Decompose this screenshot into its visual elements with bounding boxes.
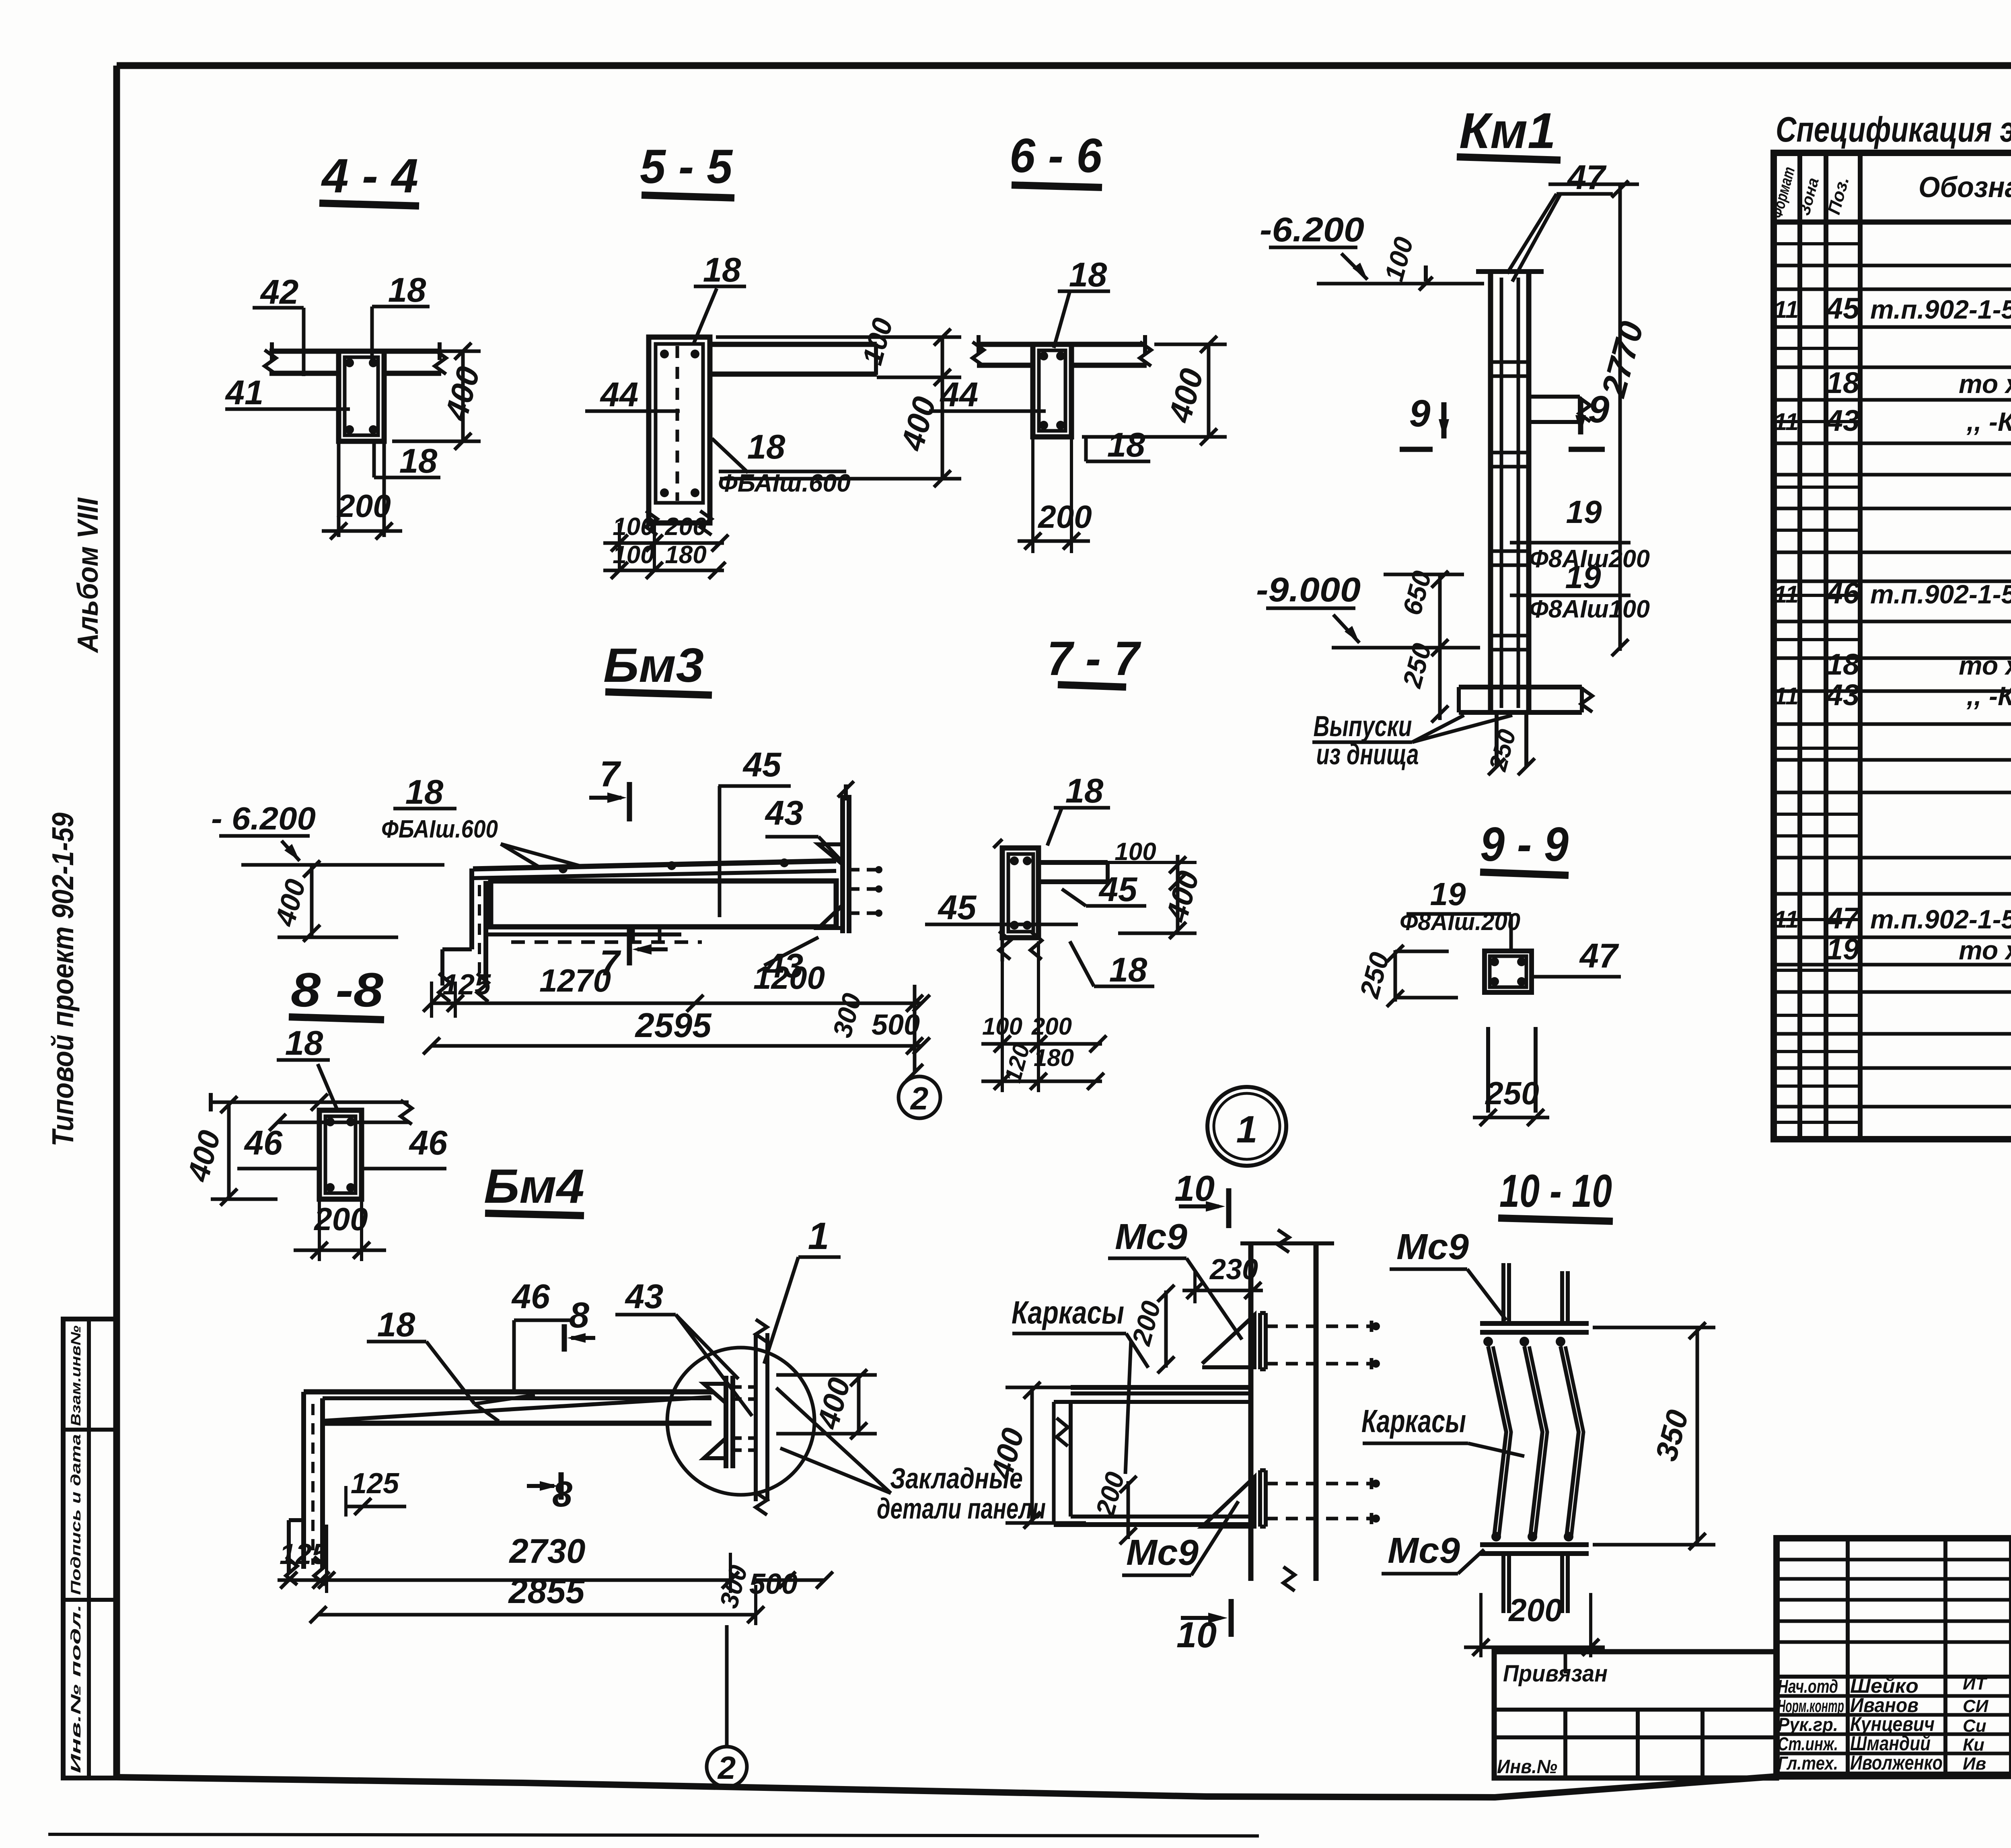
Bm3 right end plate xyxy=(818,781,854,933)
10-10 top plate xyxy=(1480,1263,1589,1346)
svg-text:8: 8 xyxy=(569,1295,589,1336)
svg-text:8 -8: 8 -8 xyxy=(291,963,383,1017)
svg-text:СИ: СИ xyxy=(1963,1696,1989,1716)
Bm3 end anchors dashed xyxy=(849,866,882,917)
svg-text:18: 18 xyxy=(399,442,438,480)
spec row 47 xyxy=(1774,901,2011,935)
inv no label xyxy=(1497,1756,1557,1778)
svg-text:18: 18 xyxy=(747,428,785,466)
spec row 18b xyxy=(1826,648,2011,681)
Bm4 dim 2855 xyxy=(310,1572,764,1623)
svg-text:46: 46 xyxy=(244,1124,283,1162)
9-9 rebar outlets below xyxy=(1473,1027,1549,1126)
Bm4 label zakladnye detali paneli xyxy=(776,1388,1046,1525)
4-4 dim 400 xyxy=(392,343,487,450)
6-6 label 18 bottom xyxy=(1086,426,1150,464)
privyazan label xyxy=(1503,1661,1608,1687)
svg-text:Ки: Ки xyxy=(1963,1735,1984,1755)
svg-text:46: 46 xyxy=(409,1124,448,1162)
svg-text:18: 18 xyxy=(377,1306,415,1344)
6-6 dim 200 xyxy=(1018,438,1092,553)
detail mark circle 1 xyxy=(1207,1087,1286,1166)
detail A lower gusset xyxy=(1202,1470,1266,1527)
Bm4 label 1 leader xyxy=(764,1215,841,1364)
7-7 slab right xyxy=(1038,862,1108,882)
Bm3 dim 400 left xyxy=(269,860,398,942)
svg-text:Нач.отд: Нач.отд xyxy=(1778,1676,1838,1697)
svg-text:Мс9: Мс9 xyxy=(1396,1227,1469,1267)
Bm3 section mark 7 lower xyxy=(600,929,668,984)
6-6 dim 400 xyxy=(1082,336,1227,445)
spec table header texts xyxy=(1768,163,2011,220)
section title 10-10 xyxy=(1498,1165,1613,1221)
8-8 label 46 right xyxy=(360,1124,448,1169)
4-4 dim 200 xyxy=(322,488,402,539)
4-4 slab xyxy=(265,342,446,374)
detail A dim 400 xyxy=(984,1382,1086,1529)
8-8 dim 400 xyxy=(181,1096,278,1206)
Bm3 detail circle 2 xyxy=(899,1076,940,1118)
svg-text:Типовой проект 902-1-59: Типовой проект 902-1-59 xyxy=(46,813,80,1146)
svg-text:Каркасы: Каркасы xyxy=(1361,1403,1466,1439)
svg-text:2: 2 xyxy=(910,1080,929,1116)
10-10 dim 350 xyxy=(1593,1322,1715,1550)
svg-text:Ф8АIш.200: Ф8АIш.200 xyxy=(1400,908,1520,935)
Km1 rebar outlets xyxy=(1484,712,1535,775)
section title 4-4 xyxy=(319,149,419,206)
spec table title xyxy=(1776,109,2011,149)
stamp box label Inv No podl xyxy=(68,1604,84,1773)
svg-text:500: 500 xyxy=(872,1009,920,1041)
section title 8-8 xyxy=(289,963,384,1020)
Bm4 beam body xyxy=(304,1392,714,1423)
left margin text Album VIII xyxy=(72,497,104,654)
svg-text:ФБАIш.600: ФБАIш.600 xyxy=(718,469,851,497)
section title 5-5 xyxy=(640,140,734,198)
detail A section mark 10 lower xyxy=(1176,1599,1231,1655)
detail A upper bolts xyxy=(1266,1321,1380,1369)
svg-text:5 - 5: 5 - 5 xyxy=(640,140,733,193)
8-8 top dim lines xyxy=(211,1093,412,1131)
svg-text:18: 18 xyxy=(1065,772,1104,810)
svg-text:7: 7 xyxy=(600,754,621,794)
5-5 bottom dims xyxy=(603,513,728,579)
spec row 43a xyxy=(1774,404,2011,437)
svg-text:1200: 1200 xyxy=(753,960,825,996)
detail A label Mc9 lower xyxy=(1122,1501,1238,1575)
10-10 bottom plate xyxy=(1480,1532,1589,1613)
7-7 label 45 left xyxy=(925,889,1078,927)
Bm3 level mark -6.200 xyxy=(211,801,444,865)
5-5 dim 100 400 xyxy=(716,315,961,487)
7-7 bottom dims xyxy=(981,941,1106,1092)
detail A lower bolts xyxy=(1266,1478,1380,1524)
section title 7-7 xyxy=(1047,632,1141,687)
Km1 level mark -6.200 xyxy=(1260,211,1484,284)
svg-text:19: 19 xyxy=(1566,494,1602,530)
svg-text:ФБАIш.600: ФБАIш.600 xyxy=(381,815,498,843)
Bm4 dim 400 right xyxy=(776,1369,877,1439)
5-5 wall section xyxy=(646,337,711,535)
title block outer frame xyxy=(1777,1538,2011,1775)
svg-text:200: 200 xyxy=(1508,1592,1562,1628)
detail A beam slab xyxy=(1054,1387,1251,1402)
svg-text:18: 18 xyxy=(1069,256,1107,294)
7-7 label 45 right xyxy=(1062,870,1146,909)
svg-text:Иволженко: Иволженко xyxy=(1850,1751,1943,1774)
6-6 beam web section xyxy=(1033,344,1071,437)
detail A dim 200 upper xyxy=(1126,1285,1174,1373)
9-9 square section xyxy=(1485,951,1532,992)
8-8 label 46 left xyxy=(237,1124,322,1169)
Bm4 label 46 xyxy=(511,1278,571,1393)
7-7 dim 100 400 xyxy=(1108,838,1206,939)
svg-text:то же -КЖ-21: то же -КЖ-21 xyxy=(1959,650,2011,680)
svg-text:18: 18 xyxy=(405,773,444,811)
svg-text:42: 42 xyxy=(260,273,299,311)
Bm3 dim line 125 1270 1200 xyxy=(423,960,930,1018)
svg-text:Инв.№ подл.: Инв.№ подл. xyxy=(68,1604,84,1773)
Bm4 detail circle 1 region xyxy=(667,1348,814,1495)
9-9 dim 250 left xyxy=(1354,945,1458,1007)
svg-text:7 - 7: 7 - 7 xyxy=(1047,632,1141,685)
svg-text:2595: 2595 xyxy=(634,1006,712,1045)
Bm4 section mark 8 upper xyxy=(564,1295,595,1352)
svg-text:1: 1 xyxy=(808,1215,829,1257)
svg-text:2: 2 xyxy=(717,1750,736,1786)
detail A dim 230 xyxy=(1182,1253,1263,1303)
8-8 section body xyxy=(319,1110,362,1199)
5-5 label 18 fbai xyxy=(712,428,851,497)
svg-text:46: 46 xyxy=(511,1278,550,1316)
svg-text:Ст.инж.: Ст.инж. xyxy=(1778,1733,1838,1754)
5-5 label 44 xyxy=(585,376,680,414)
5-5 label 18 top xyxy=(693,251,746,345)
svg-text:ИТ: ИТ xyxy=(1963,1674,1988,1694)
Km1 label 19 F8AI100 xyxy=(1510,559,1650,623)
Bm4 left wall xyxy=(286,1392,325,1585)
9-9 label F8AI200 xyxy=(1400,908,1520,953)
svg-text:125: 125 xyxy=(351,1467,399,1500)
9-9 label 47 xyxy=(1532,937,1621,977)
svg-text:- 6.200: - 6.200 xyxy=(211,801,316,836)
svg-text:2855: 2855 xyxy=(508,1572,585,1611)
4-4 label 42 xyxy=(253,273,304,376)
svg-text:Спецификация элементов монолит: Спецификация элементов монолитной констр… xyxy=(1776,109,2011,149)
4-4 label 18 top xyxy=(372,271,430,362)
Bm4 dim 125 upper xyxy=(346,1467,406,1517)
4-4 label 18 bottom xyxy=(374,442,440,480)
svg-text:45: 45 xyxy=(1826,292,1860,325)
svg-text:43: 43 xyxy=(765,794,804,832)
Bm3 beam top slab xyxy=(473,858,836,878)
4-4 label 41 xyxy=(225,374,350,412)
Km1 label 47 xyxy=(1507,158,1613,282)
svg-text:т.п.902-1-59 -КЖ-20: т.п.902-1-59 -КЖ-20 xyxy=(1870,294,2011,324)
7-7 label 18 bottom xyxy=(1070,941,1154,989)
10-10 label Mc9 upper xyxy=(1390,1227,1506,1320)
Km1 dim 2770 xyxy=(1548,181,1651,656)
svg-text:46: 46 xyxy=(1826,576,1860,610)
svg-text:Обозначение: Обозначение xyxy=(1918,171,2011,204)
svg-text:18: 18 xyxy=(703,251,741,289)
svg-text:Каркасы: Каркасы xyxy=(1012,1294,1124,1330)
Km1 bottom flange xyxy=(1459,687,1592,712)
Km1 dim 100 top xyxy=(1379,234,1433,290)
svg-text:43: 43 xyxy=(1826,678,1859,712)
Bm3 label 45 xyxy=(718,746,791,917)
spec row 18a xyxy=(1826,366,2011,399)
Bm3 label 18 left xyxy=(393,773,456,811)
svg-text:18: 18 xyxy=(1109,951,1147,989)
Bm3 dims 300 500 right xyxy=(827,985,923,1081)
Km1 label vypuski iz dnishcha xyxy=(1312,710,1512,771)
svg-text:9 - 9: 9 - 9 xyxy=(1480,817,1569,871)
left margin text project number xyxy=(46,813,80,1146)
svg-text:125: 125 xyxy=(442,969,491,1001)
svg-text:125: 125 xyxy=(280,1538,328,1570)
svg-text:Инв.№: Инв.№ xyxy=(1497,1756,1557,1778)
8-8 label 18 xyxy=(277,1024,337,1110)
svg-text:т.п.902-1-59 -КЖ-20: т.п.902-1-59 -КЖ-20 xyxy=(1870,579,2011,609)
9-9 label 19 xyxy=(1406,876,1511,914)
left margin stamp boxes xyxy=(63,1319,117,1778)
scan artifact line bottom xyxy=(48,1834,1259,1836)
section title 6-6 xyxy=(1010,129,1102,187)
Km1 section mark 9 left xyxy=(1400,392,1449,449)
svg-text:Подпись и дата: Подпись и дата xyxy=(68,1434,84,1595)
svg-text:т.п.902-1-59 -КЖ-20: т.п.902-1-59 -КЖ-20 xyxy=(1870,904,2011,934)
5-5 slab right xyxy=(710,344,877,375)
svg-text:47: 47 xyxy=(1826,901,1861,935)
spec row 19 xyxy=(1826,932,2011,966)
7-7 label 18 top xyxy=(1047,772,1110,846)
svg-text:Рук.гр.: Рук.гр. xyxy=(1778,1714,1838,1735)
svg-text:9: 9 xyxy=(1409,392,1431,435)
svg-text:200: 200 xyxy=(313,1201,368,1237)
Km1 right ledge xyxy=(1529,397,1590,422)
Bm3 label 43 upper xyxy=(765,794,844,863)
svg-text:то же -КЖ-21: то же -КЖ-21 xyxy=(1959,935,2011,965)
view title Bm4 xyxy=(484,1159,584,1216)
detail A wall xyxy=(1240,1230,1334,1591)
10-10 karkas chevrons xyxy=(1488,1346,1583,1536)
stamp box label Podpis i data xyxy=(68,1434,84,1595)
10-10 label Karkasy xyxy=(1361,1403,1524,1456)
svg-text:19: 19 xyxy=(1430,876,1466,912)
svg-text:180: 180 xyxy=(665,541,706,569)
title block left grid xyxy=(1777,1538,2011,1775)
svg-text:Привязан: Привязан xyxy=(1503,1661,1608,1687)
Km1 section mark 9 right xyxy=(1569,388,1610,449)
svg-text:-6.200: -6.200 xyxy=(1260,211,1364,249)
spec row 43b xyxy=(1774,678,2011,712)
svg-text:1: 1 xyxy=(1236,1108,1258,1151)
svg-text:19: 19 xyxy=(1826,932,1859,966)
svg-text:10 - 10: 10 - 10 xyxy=(1499,1165,1612,1217)
spec row 46 xyxy=(1774,576,2011,610)
section title 9-9 xyxy=(1480,817,1569,875)
svg-text:Взам.инв№: Взам.инв№ xyxy=(68,1325,84,1426)
svg-text:2730: 2730 xyxy=(508,1532,585,1570)
svg-text:200: 200 xyxy=(1037,499,1092,535)
Bm4 dim 2730 xyxy=(318,1525,739,1593)
Bm4 dim 125 lower xyxy=(278,1538,330,1589)
svg-text:-9.000: -9.000 xyxy=(1256,571,1361,609)
svg-text:11: 11 xyxy=(1774,581,1799,608)
svg-text:18: 18 xyxy=(388,271,426,309)
svg-text:,, -КЖИ-Мс9: ,, -КЖИ-Мс9 xyxy=(1966,681,2011,711)
svg-text:43: 43 xyxy=(1826,404,1859,437)
Bm4 label 43 xyxy=(615,1278,752,1416)
svg-text:то же -КЖ-21: то же -КЖ-21 xyxy=(1959,369,2011,399)
view title Km1 xyxy=(1457,103,1561,160)
svg-text:Выпуски: Выпуски xyxy=(1314,710,1412,743)
svg-text:45: 45 xyxy=(742,746,782,784)
4-4 beam web section xyxy=(339,351,384,537)
svg-text:200: 200 xyxy=(336,488,391,524)
svg-text:41: 41 xyxy=(225,374,264,412)
svg-text:Альбом VIII: Альбом VIII xyxy=(72,497,104,654)
spec table grid xyxy=(1774,153,2011,1139)
Km1 dim 650 250 xyxy=(1384,568,1464,722)
svg-text:Норм.контр: Норм.контр xyxy=(1778,1696,1844,1716)
Bm3 soffit lines xyxy=(486,927,702,943)
detail A label Mc9 upper xyxy=(1108,1217,1242,1340)
svg-text:Мс9: Мс9 xyxy=(1388,1531,1460,1571)
Km1 level mark -9.000 xyxy=(1256,571,1480,648)
10-10 dim 200 xyxy=(1464,1592,1605,1657)
detail A section mark 10 upper xyxy=(1174,1169,1229,1228)
detail A beam body xyxy=(1054,1402,1251,1525)
svg-text:250: 250 xyxy=(1485,1075,1539,1111)
svg-text:18: 18 xyxy=(1107,426,1145,464)
Bm4 label 18 xyxy=(367,1306,535,1421)
10-10 label Mc9 lower xyxy=(1382,1531,1484,1574)
svg-text:11: 11 xyxy=(1774,906,1799,933)
Km1 label 19 F8AI200 xyxy=(1510,494,1650,573)
svg-text:Гл.тех.: Гл.тех. xyxy=(1778,1753,1838,1774)
svg-text:45: 45 xyxy=(1098,870,1138,909)
detail A label Karkasy xyxy=(1012,1294,1148,1474)
svg-text:Мс9: Мс9 xyxy=(1115,1217,1187,1257)
svg-text:18: 18 xyxy=(1826,366,1860,399)
stamp box label Vzam inv No xyxy=(68,1325,84,1426)
7-7 wall section xyxy=(993,839,1042,961)
Bm3 section mark 7 upper xyxy=(589,754,629,821)
svg-text:Км1: Км1 xyxy=(1459,103,1556,159)
6-6 slab xyxy=(973,335,1151,366)
svg-text:9: 9 xyxy=(1588,388,1610,431)
Bm3 beam body xyxy=(491,881,836,927)
privyazan strip box xyxy=(1494,1652,1777,1778)
Bm4 dims 300 500 xyxy=(714,1553,833,1625)
svg-text:11: 11 xyxy=(1774,683,1799,710)
svg-text:100: 100 xyxy=(613,541,654,569)
Bm4 section mark 8 lower xyxy=(527,1472,572,1515)
svg-text:45: 45 xyxy=(938,889,977,927)
Bm4 end plate in circle xyxy=(704,1319,767,1515)
Bm3 dim line 2595 xyxy=(423,1006,930,1054)
svg-text:18: 18 xyxy=(1826,648,1860,681)
svg-text:Си: Си xyxy=(1963,1716,1986,1736)
svg-text:,, -КЖИ-Мс9: ,, -КЖИ-Мс9 xyxy=(1966,407,2011,436)
spec row 45 xyxy=(1774,292,2011,325)
title block signatures xyxy=(1778,1674,1989,1774)
svg-text:47: 47 xyxy=(1567,158,1607,197)
svg-text:44: 44 xyxy=(940,376,979,414)
svg-text:200: 200 xyxy=(664,513,706,541)
svg-text:47: 47 xyxy=(1579,937,1619,975)
svg-text:11: 11 xyxy=(1774,296,1799,323)
svg-text:19: 19 xyxy=(1565,559,1601,595)
svg-text:43: 43 xyxy=(625,1278,664,1316)
svg-text:Ив: Ив xyxy=(1963,1754,1986,1774)
svg-text:18: 18 xyxy=(285,1024,323,1062)
svg-text:44: 44 xyxy=(600,376,639,414)
svg-text:Бм3: Бм3 xyxy=(603,638,704,692)
svg-text:4 - 4: 4 - 4 xyxy=(321,149,418,203)
svg-text:6 - 6: 6 - 6 xyxy=(1010,129,1102,183)
svg-text:11: 11 xyxy=(1774,408,1799,435)
8-8 dim 200 xyxy=(294,1201,386,1261)
Bm3 left wall xyxy=(439,868,488,1002)
svg-text:Мс9: Мс9 xyxy=(1126,1533,1199,1573)
svg-text:1270: 1270 xyxy=(539,963,611,998)
detail A upper gusset xyxy=(1202,1313,1266,1369)
6-6 label 44 xyxy=(929,376,1046,414)
svg-text:Ф8АIш100: Ф8АIш100 xyxy=(1529,595,1650,623)
Bm3 label 43 lower xyxy=(764,937,818,985)
Bm4 detail circle 2 xyxy=(707,1625,747,1787)
6-6 label 18 top xyxy=(1054,256,1110,348)
Bm3 label FBAI600 xyxy=(381,815,579,868)
Km1 column body xyxy=(1476,272,1544,712)
detail A dim 200 lower xyxy=(1090,1469,1137,1544)
svg-text:детали панели: детали панели xyxy=(877,1493,1046,1525)
view title Bm3 xyxy=(603,638,712,695)
svg-text:Бм4: Бм4 xyxy=(484,1159,584,1213)
